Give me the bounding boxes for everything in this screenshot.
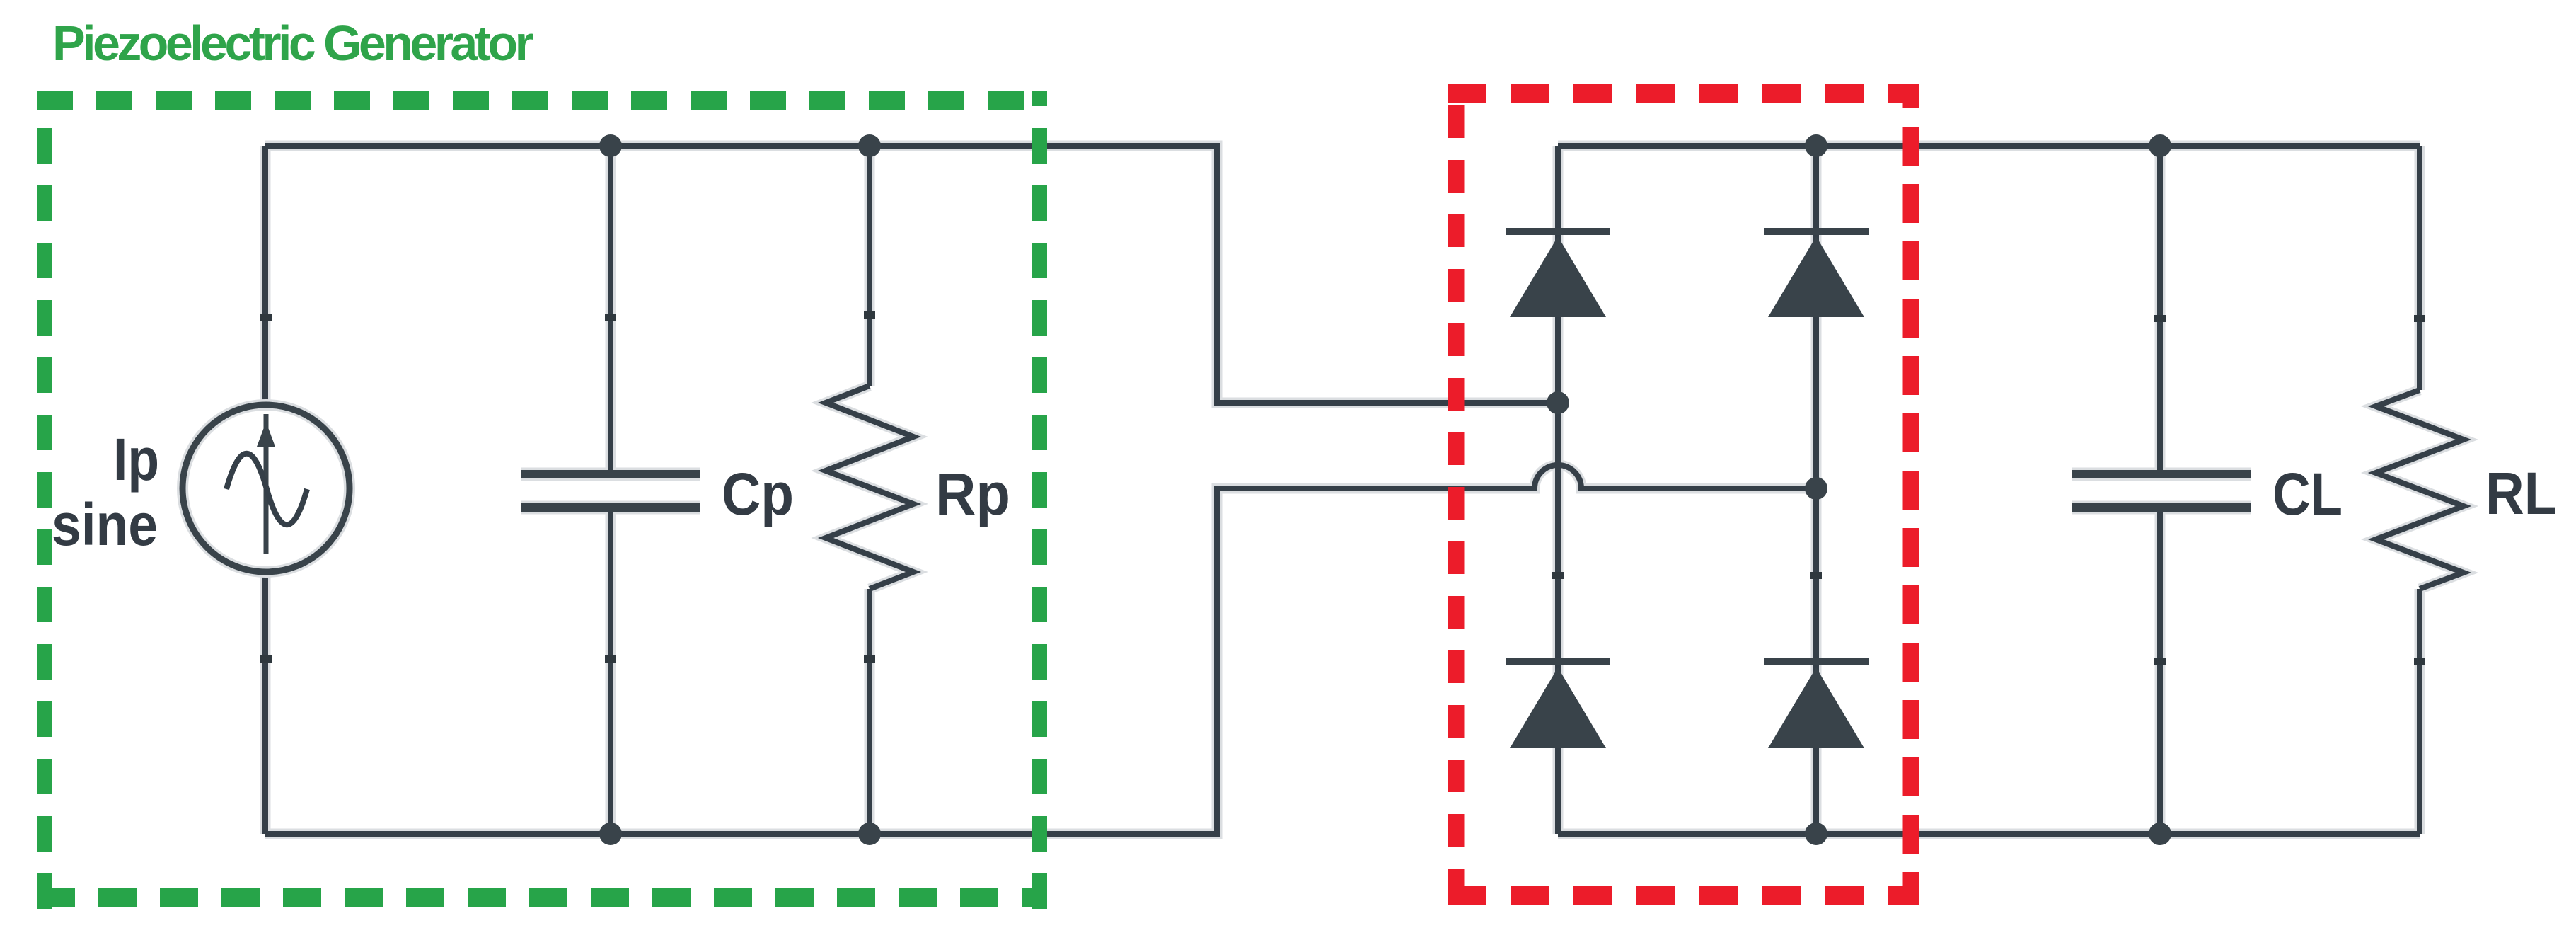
wire: bridge and load bottom rail bbox=[1558, 831, 2420, 837]
pin tick: Cp top bbox=[605, 314, 616, 321]
wire: bridge left branch vertical bbox=[1555, 146, 1561, 834]
diode D4 cathode bar (bottom-right) bbox=[1764, 658, 1869, 665]
svg-text:Ip: Ip bbox=[113, 426, 159, 493]
junction node: bridge AC input 2 bbox=[1805, 477, 1827, 500]
junction node: CL bottom bbox=[2149, 822, 2171, 845]
wire: bridge and load top rail bbox=[1558, 143, 2420, 149]
current source sine symbol bbox=[226, 454, 307, 525]
pin tick: RL bottom bbox=[2414, 658, 2425, 665]
junction node: bridge DC+ top bbox=[1805, 134, 1827, 157]
wire shadow halo bbox=[265, 146, 2464, 834]
diode D1 triangle bbox=[1510, 236, 1606, 317]
svg-text:Piezoelectric Generator: Piezoelectric Generator bbox=[52, 16, 534, 71]
junction node: Rp top bbox=[858, 134, 881, 157]
wire: CL branch bottom lead bbox=[2157, 508, 2163, 834]
pin tick: CL top bbox=[2154, 315, 2166, 322]
wire: piezo top rail from node A down to bridge AC input 1 bbox=[265, 146, 1558, 403]
junction node: bridge DC- bottom bbox=[1805, 822, 1827, 845]
resistor Rp zigzag bbox=[826, 386, 913, 589]
junction node: Cp top bbox=[599, 134, 622, 157]
pin tick: D4 top bbox=[1810, 572, 1822, 579]
wire: Rp branch top lead bbox=[867, 146, 872, 386]
green dashed enclosure: Piezoelectric Generator box bbox=[37, 91, 1047, 910]
current source arrow bbox=[264, 414, 269, 554]
pin tick: RL top bbox=[2414, 315, 2425, 322]
diode D3 cathode bar (bottom-left) bbox=[1506, 658, 1610, 665]
pin tick: Cp bottom bbox=[605, 655, 616, 663]
resistor RL zigzag bbox=[2376, 390, 2464, 589]
svg-text:Rp: Rp bbox=[935, 461, 1010, 527]
junction node: Cp bottom bbox=[599, 822, 622, 845]
wire: Cp branch bottom lead bbox=[608, 508, 613, 834]
wire: source I1 bottom lead bbox=[262, 575, 268, 834]
wire: piezo bottom rail up to bridge AC input 2 with hop over left branch bbox=[265, 465, 1816, 834]
junction node: bridge AC input 1 bbox=[1547, 391, 1569, 414]
pin tick: Rp bottom bbox=[864, 655, 875, 663]
wire: RL branch bottom lead bbox=[2417, 589, 2422, 834]
wire: bridge right branch vertical bbox=[1813, 146, 1819, 834]
pin tick: I1 top bbox=[260, 314, 272, 321]
diode D2 cathode bar (top-right) bbox=[1764, 228, 1869, 235]
diode D2 triangle bbox=[1768, 236, 1864, 317]
wire: CL branch top lead bbox=[2157, 146, 2163, 474]
pin tick: D3 top bbox=[1552, 572, 1564, 579]
capacitor Cp plates bbox=[521, 474, 700, 508]
wire: Rp branch bottom lead bbox=[867, 589, 872, 834]
wire: RL branch top lead bbox=[2417, 146, 2422, 390]
junction node: CL top bbox=[2149, 134, 2171, 157]
svg-text:CL: CL bbox=[2272, 461, 2343, 527]
junction node: Rp bottom bbox=[858, 822, 881, 845]
capacitor CL plates bbox=[2072, 474, 2251, 508]
wire: source I1 top lead bbox=[262, 146, 268, 402]
pin tick: Rp top bbox=[864, 311, 875, 319]
current source I1 circle bbox=[183, 405, 350, 572]
pin tick: I1 bottom bbox=[260, 655, 272, 663]
diode D1 cathode bar (top-left) bbox=[1506, 228, 1610, 235]
svg-text:sine: sine bbox=[52, 491, 158, 558]
diode D4 triangle bbox=[1768, 667, 1864, 748]
wire: Cp branch top lead bbox=[608, 146, 613, 474]
pin tick: CL bottom bbox=[2154, 658, 2166, 665]
diode D3 triangle bbox=[1510, 667, 1606, 748]
red dashed enclosure: diode bridge box bbox=[1448, 84, 1919, 905]
svg-text:RL: RL bbox=[2485, 460, 2557, 527]
svg-text:Cp: Cp bbox=[722, 461, 794, 527]
